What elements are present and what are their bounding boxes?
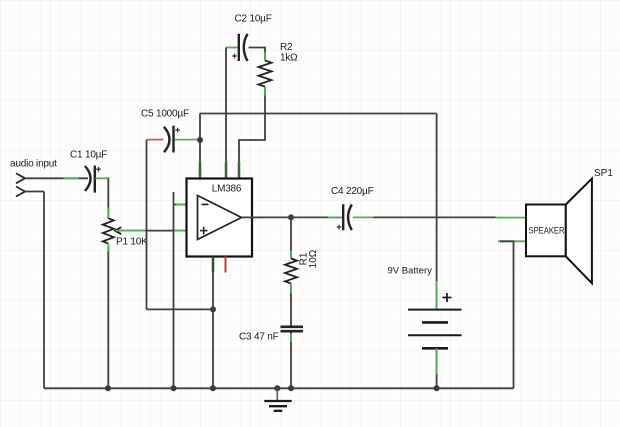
potentiometer P1 <box>103 218 122 243</box>
wire ground column x=173.5 <box>173 192 175 388</box>
wire corner down to P1 <box>107 178 109 218</box>
wire battery bottom pin stub <box>436 348 438 374</box>
wire R1 top pin stub <box>290 251 292 259</box>
wire + input pin stub <box>175 230 187 232</box>
wire - input to ground column <box>174 204 198 206</box>
wire - input pin stub <box>176 204 187 206</box>
svg-text:C5 1000µF: C5 1000µF <box>141 109 189 120</box>
node output junction <box>288 214 294 220</box>
wire P1 bottom to ground rail <box>107 244 109 389</box>
wire P1 top pin stub <box>107 208 109 219</box>
wire C4 left pin stub <box>328 216 342 218</box>
svg-text:SP1: SP1 <box>594 168 613 179</box>
svg-text:1kΩ: 1kΩ <box>280 53 298 64</box>
capacitor C2 <box>232 34 247 61</box>
wire C3 bottom pin stub <box>290 334 292 342</box>
capacitor C5 <box>164 126 180 153</box>
wire V+ top rail <box>200 113 437 115</box>
wire battery bottom to rail <box>436 348 438 388</box>
capacitor C4 <box>337 204 352 230</box>
wire speaker bottom pin (green) <box>498 240 526 242</box>
svg-text:P1 10K: P1 10K <box>116 237 148 248</box>
svg-text:audio input: audio input <box>10 159 57 170</box>
wire R1 bottom pin stub <box>290 283 292 293</box>
wire C2 left corner down to op-amp pin <box>225 48 227 179</box>
wire terminal2 stub <box>25 191 44 193</box>
wire R2 bottom down, then left, then down to op-amp pin <box>239 87 265 178</box>
svg-text:C4 220µF: C4 220µF <box>331 186 374 197</box>
node rail battery <box>434 385 440 391</box>
wire op-amp gnd pin down to rail <box>212 257 214 389</box>
speaker SP1 <box>526 179 592 284</box>
wire speaker bottom to rail <box>500 241 514 388</box>
ground <box>264 401 291 411</box>
wire junction vertical to op-amp pin and up to V+ rail <box>199 114 201 179</box>
wire C5 left pin (red) <box>147 139 164 141</box>
capacitor C3 <box>281 327 304 331</box>
svg-text:C1 10µF: C1 10µF <box>70 150 107 161</box>
wire C2 right to R2 <box>249 48 266 61</box>
wire wiper pin stub <box>116 230 145 232</box>
audio input terminal 2 <box>16 187 25 197</box>
wire C5 bottom horizontal to gnd pin column <box>147 308 214 310</box>
wire C5 right pin to junction <box>175 139 201 141</box>
wire op-amp output to junction <box>242 216 292 218</box>
battery 9V <box>408 293 462 348</box>
svg-text:R2: R2 <box>280 42 293 53</box>
wire C3 bottom to rail <box>290 333 292 389</box>
wire C1 right pin to corner <box>96 177 110 179</box>
svg-text:C3 47 nF: C3 47 nF <box>239 332 279 343</box>
audio input terminal 1 <box>16 173 25 183</box>
wire C4 to speaker <box>374 216 496 218</box>
node junction C5/pin <box>197 137 203 143</box>
resistor R1 <box>285 259 297 284</box>
wire C1 left pin stub <box>64 177 79 179</box>
wire P1 wiper to op-amp + input <box>115 230 198 232</box>
wire junction to C4 <box>291 216 342 218</box>
svg-text:9V Battery: 9V Battery <box>388 266 433 277</box>
wire speaker top pin (green) <box>496 217 526 219</box>
wire terminal2 down left side <box>43 192 45 389</box>
wire battery top pin stub <box>436 281 438 310</box>
svg-text:10Ω: 10Ω <box>308 249 319 268</box>
wire battery top from V+ rail <box>436 114 438 310</box>
wire P1 bottom pin stub <box>107 244 109 252</box>
node rail P1 <box>105 385 111 391</box>
node rail op-amp gnd <box>210 385 216 391</box>
wire R2 bottom pin stub <box>264 87 266 95</box>
node junction gnd pin / C5 bottom <box>210 306 216 312</box>
wire terminal1 to C1 <box>25 177 88 179</box>
wire C5 left down <box>146 140 148 310</box>
wire C4 right pin stub <box>353 216 374 218</box>
svg-text:SPEAKER: SPEAKER <box>529 226 565 237</box>
node rail C3 <box>288 385 294 391</box>
node rail minus-input column <box>171 385 177 391</box>
wire R2 top pin stub <box>264 52 266 61</box>
pin 7 red stub <box>225 257 227 273</box>
wire R1 bottom to C3 <box>290 283 292 325</box>
svg-text:LM386: LM386 <box>212 184 242 195</box>
capacitor C1 <box>85 166 101 193</box>
wire C2 left pin <box>226 47 238 49</box>
wire bottom ground rail <box>44 387 514 389</box>
node rail ground symbol <box>274 385 280 391</box>
wire R1 column from output junction <box>290 217 292 258</box>
op-amp U1 LM386 <box>187 162 263 272</box>
resistor R2 <box>259 61 272 87</box>
wire ground stub <box>276 388 278 401</box>
svg-text:C2 10µF: C2 10µF <box>235 14 272 25</box>
